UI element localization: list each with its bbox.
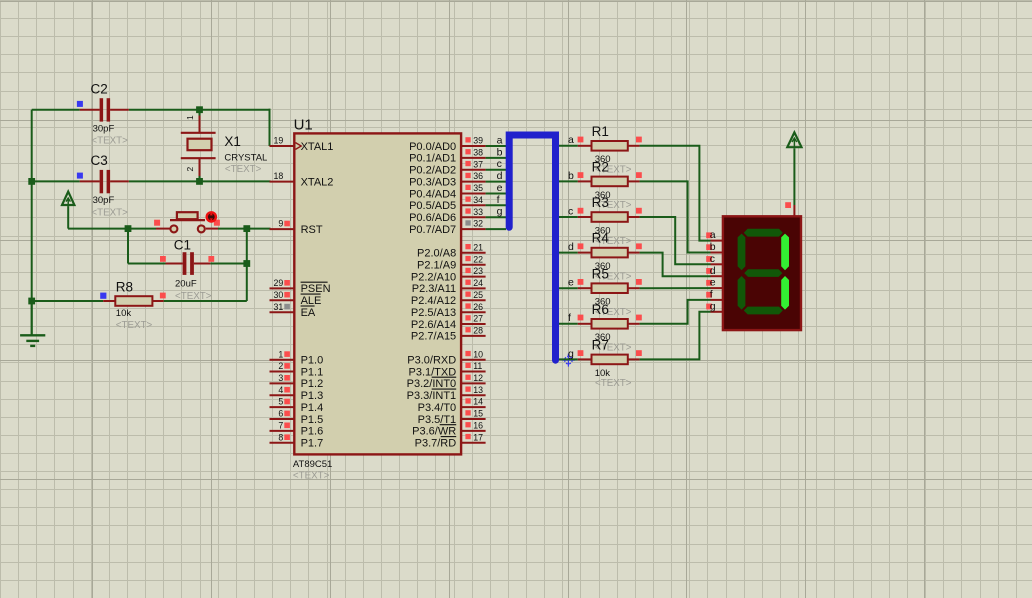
value 360 (R1)	[595, 154, 611, 165]
svg-text:2: 2	[278, 361, 283, 371]
svg-text:8: 8	[278, 432, 283, 442]
value 10k (R8)	[116, 308, 132, 319]
U1 right pin names	[407, 141, 457, 450]
text placeholder X1	[225, 164, 262, 175]
svg-text:c: c	[568, 205, 573, 217]
svg-text:P1.3: P1.3	[301, 390, 324, 402]
svg-text:P3.1/TXD: P3.1/TXD	[409, 366, 457, 378]
pin 9 RST	[270, 219, 295, 229]
U1 left pin names	[301, 141, 334, 450]
svg-text:AT89C51: AT89C51	[293, 459, 332, 470]
pin 2 P1.1	[270, 361, 295, 371]
svg-text:26: 26	[473, 302, 483, 312]
net label a (resistor left)	[568, 134, 574, 146]
pin 23 P2.2	[461, 266, 486, 276]
svg-text:29: 29	[274, 278, 284, 288]
display pin g	[706, 300, 723, 312]
net label c (resistor left)	[568, 205, 573, 217]
text placeholder R7	[595, 378, 632, 389]
svg-text:P2.0/A8: P2.0/A8	[417, 248, 456, 260]
svg-text:1: 1	[185, 115, 195, 120]
svg-text:f: f	[568, 312, 571, 324]
pin 17 P3.7	[461, 432, 486, 442]
wire net e to display	[640, 287, 711, 289]
svg-text:U1: U1	[294, 117, 313, 134]
svg-text:a: a	[568, 134, 574, 146]
svg-text:P2.4/A12: P2.4/A12	[411, 295, 456, 307]
pin 28 P2.7	[461, 326, 486, 336]
net label a (bus left)	[497, 134, 503, 146]
pin 19 XTAL1	[270, 136, 295, 146]
pin 34 P0.5	[461, 195, 506, 205]
svg-text:g: g	[710, 300, 716, 312]
value 30pF (C3)	[93, 195, 115, 206]
svg-text:10k: 10k	[595, 368, 611, 379]
display pin a	[706, 229, 723, 241]
svg-text:P3.3/INT1: P3.3/INT1	[407, 390, 457, 402]
pin 37 P0.2	[461, 159, 506, 169]
wire right drop (RST-C1-R8)	[246, 229, 248, 301]
svg-text:R2: R2	[592, 160, 609, 175]
label C1	[174, 238, 191, 253]
svg-text:34: 34	[473, 195, 483, 205]
svg-text:12: 12	[473, 373, 483, 383]
svg-text:e: e	[568, 277, 574, 289]
junction RST / C1 left drop	[125, 225, 132, 232]
svg-text:P0.3/AD3: P0.3/AD3	[409, 176, 456, 188]
svg-text:c: c	[710, 253, 715, 265]
pin 11 P3.1	[461, 361, 486, 371]
pin 35 P0.4	[461, 183, 506, 193]
svg-text:P2.1/A9: P2.1/A9	[417, 260, 456, 272]
pin 27 P2.6	[461, 314, 486, 324]
svg-text:d: d	[568, 241, 574, 253]
wire C2 row to XTAL1	[32, 109, 271, 146]
label R1	[592, 124, 609, 139]
svg-text:P0.5/AD5: P0.5/AD5	[409, 200, 456, 212]
svg-text:P1.0: P1.0	[301, 355, 324, 367]
pin 30 ALE	[270, 290, 295, 300]
svg-text:X1: X1	[224, 134, 241, 149]
label R6	[592, 302, 609, 317]
svg-text:24: 24	[473, 278, 483, 288]
power symbol (RST)	[62, 192, 74, 229]
svg-text:4: 4	[278, 385, 283, 395]
svg-text:10: 10	[473, 349, 483, 359]
pin 33 P0.6	[461, 207, 506, 217]
label X1	[224, 134, 241, 149]
svg-text:9: 9	[278, 219, 283, 229]
resistor R6	[559, 315, 642, 329]
text placeholder C3	[91, 207, 128, 218]
net label g (bus left)	[497, 206, 503, 218]
pin 38 P0.1	[461, 148, 506, 158]
svg-text:R1: R1	[592, 124, 609, 139]
display top pin	[785, 202, 794, 216]
svg-text:b: b	[710, 241, 716, 253]
pin 31 EA	[270, 302, 295, 312]
svg-text:10k: 10k	[116, 308, 132, 319]
svg-text:<TEXT>: <TEXT>	[116, 320, 153, 331]
svg-text:R4: R4	[592, 231, 610, 246]
bus P0	[509, 135, 555, 360]
net label b (bus left)	[497, 146, 503, 158]
svg-text:P0.4/AD4: P0.4/AD4	[409, 188, 456, 200]
text placeholder R5	[595, 307, 632, 318]
svg-text:b: b	[497, 146, 503, 158]
svg-text:1: 1	[278, 349, 283, 359]
wire C1 left drop	[127, 229, 129, 264]
pin 10 P3.0	[461, 349, 486, 359]
junction crystal pin2	[196, 178, 203, 185]
wire net a to display	[640, 146, 711, 241]
svg-text:g: g	[497, 206, 503, 218]
pin 3 P1.2	[270, 373, 295, 383]
wire net g to display	[640, 312, 711, 360]
pin 26 P2.5	[461, 302, 486, 312]
svg-text:32: 32	[473, 219, 483, 229]
svg-text:36: 36	[473, 171, 483, 181]
svg-text:7: 7	[278, 421, 283, 431]
wire C3 row to XTAL2	[32, 180, 271, 182]
label C2	[91, 81, 108, 96]
svg-text:a: a	[497, 134, 503, 146]
svg-text:P2.7/A15: P2.7/A15	[411, 331, 456, 343]
svg-text:P3.4/T0: P3.4/T0	[418, 402, 457, 414]
resistor R4	[559, 243, 642, 257]
pin 29 PSEN	[270, 278, 295, 288]
pin 36 P0.3	[461, 171, 506, 181]
capacitor C2	[77, 98, 129, 121]
display power arrow	[787, 132, 801, 205]
value 360 (R5)	[595, 297, 611, 308]
svg-text:<TEXT>: <TEXT>	[225, 164, 262, 175]
text placeholder R4	[595, 271, 632, 282]
svg-text:e: e	[710, 277, 716, 289]
svg-text:b: b	[568, 170, 574, 182]
svg-text:P0.7/AD7: P0.7/AD7	[409, 224, 456, 236]
text placeholder C1	[175, 291, 212, 302]
pin 22 P2.1	[461, 254, 486, 264]
net label c (bus left)	[497, 158, 502, 170]
svg-text:P3.0/RXD: P3.0/RXD	[407, 355, 456, 367]
svg-text:d: d	[497, 170, 503, 182]
capacitor C1	[128, 252, 247, 275]
net label f (bus left)	[497, 194, 500, 206]
svg-text:ALE: ALE	[301, 295, 322, 307]
svg-text:P1.1: P1.1	[301, 366, 324, 378]
display pin b	[706, 241, 723, 253]
junction left rail / C3	[28, 178, 35, 185]
svg-text:31: 31	[274, 302, 284, 312]
pin 12 P3.2	[461, 373, 486, 383]
svg-text:g: g	[568, 348, 574, 360]
pin 4 P1.3	[270, 385, 295, 395]
svg-text:P0.0/AD0: P0.0/AD0	[409, 141, 456, 153]
label R7	[592, 338, 609, 353]
net label f (resistor left)	[568, 312, 571, 324]
pin 14 P3.4	[461, 397, 486, 407]
svg-text:R5: R5	[592, 266, 609, 281]
display pin e	[706, 277, 723, 289]
svg-text:3: 3	[278, 373, 283, 383]
pin 18 XTAL2	[270, 171, 295, 181]
svg-text:21: 21	[473, 242, 483, 252]
svg-text:37: 37	[473, 159, 483, 169]
value 30pF (C2)	[93, 123, 115, 134]
svg-text:P1.4: P1.4	[301, 402, 324, 414]
value 360 (R6)	[595, 332, 611, 343]
pin 15 P3.5	[461, 409, 486, 419]
label R2	[592, 160, 609, 175]
pin 8 P1.7	[270, 432, 295, 442]
svg-text:39: 39	[473, 136, 483, 146]
net label d (bus left)	[497, 170, 503, 182]
display pin d	[706, 265, 723, 277]
value 20uF	[175, 279, 197, 290]
bus origin marker	[562, 354, 575, 367]
text placeholder R8	[116, 320, 153, 331]
pin 25 P2.4	[461, 290, 486, 300]
svg-text:P3.2/INT0: P3.2/INT0	[407, 378, 457, 390]
net label e (resistor left)	[568, 277, 574, 289]
svg-text:P2.3/A11: P2.3/A11	[412, 283, 456, 295]
svg-text:c: c	[497, 158, 502, 170]
pin 7 P1.6	[270, 421, 295, 431]
label R3	[592, 195, 609, 210]
svg-text:25: 25	[473, 290, 483, 300]
svg-text:28: 28	[473, 326, 483, 336]
junction crystal pin1	[196, 106, 203, 113]
svg-text:P2.6/A14: P2.6/A14	[411, 319, 456, 331]
label U1	[294, 117, 313, 134]
pin 32 P0.7	[461, 219, 506, 229]
svg-text:35: 35	[473, 183, 483, 193]
svg-text:30: 30	[274, 290, 284, 300]
display pin c	[706, 253, 723, 265]
svg-text:17: 17	[473, 432, 483, 442]
capacitor C3	[77, 170, 129, 193]
svg-text:PSEN: PSEN	[301, 283, 331, 295]
value CRYSTAL	[224, 152, 267, 163]
svg-text:33: 33	[473, 207, 483, 217]
svg-text:P0.2/AD2: P0.2/AD2	[409, 165, 456, 177]
junction RST / right drop	[243, 225, 250, 232]
pin 6 P1.5	[270, 409, 295, 419]
svg-text:P2.2/A10: P2.2/A10	[411, 271, 456, 283]
pin 5 P1.4	[270, 397, 295, 407]
wire net b to display	[640, 181, 711, 252]
svg-text:38: 38	[473, 148, 483, 158]
label R4	[592, 231, 610, 246]
display pin f	[706, 289, 723, 301]
svg-text:18: 18	[274, 171, 284, 181]
wire left rail	[31, 110, 33, 335]
svg-text:f: f	[710, 289, 713, 301]
svg-text:P3.5/T1: P3.5/T1	[418, 414, 457, 426]
wire net f to display	[640, 300, 711, 324]
pin 1 P1.0	[270, 349, 295, 359]
svg-text:P3.7/RD: P3.7/RD	[415, 438, 457, 450]
svg-text:30pF: 30pF	[93, 123, 115, 134]
value 360 (R2)	[595, 190, 611, 201]
resistor R2	[559, 172, 642, 186]
wire net d to display	[640, 253, 711, 277]
svg-text:5: 5	[278, 397, 283, 407]
wire RST row	[68, 228, 271, 230]
resistor R3	[559, 208, 642, 222]
svg-text:d: d	[710, 265, 716, 277]
svg-text:P3.6/WR: P3.6/WR	[412, 426, 456, 438]
svg-text:27: 27	[473, 314, 483, 324]
junction left rail / R8	[28, 298, 35, 305]
text placeholder R3	[595, 236, 632, 247]
svg-text:2: 2	[185, 166, 195, 171]
svg-text:15: 15	[473, 409, 483, 419]
svg-text:6: 6	[278, 409, 283, 419]
pin 16 P3.6	[461, 421, 486, 431]
svg-text:23: 23	[473, 266, 483, 276]
value 360 (R4)	[595, 261, 611, 272]
junction C1 right	[243, 260, 250, 267]
svg-text:EA: EA	[301, 307, 316, 319]
resistor R7	[559, 350, 642, 364]
value 360 (R3)	[595, 225, 611, 236]
svg-text:f: f	[497, 194, 500, 206]
svg-text:RST: RST	[301, 224, 323, 236]
svg-text:11: 11	[473, 361, 482, 371]
svg-text:P1.6: P1.6	[301, 426, 324, 438]
7-segment display	[723, 216, 801, 330]
pin 24 P2.3	[461, 278, 486, 288]
svg-text:14: 14	[473, 397, 483, 407]
ground	[20, 301, 45, 346]
resistor R1	[559, 137, 642, 151]
svg-text:R8: R8	[116, 280, 133, 295]
svg-text:30pF: 30pF	[93, 195, 115, 206]
svg-text:C2: C2	[91, 81, 108, 96]
svg-text:R7: R7	[592, 338, 609, 353]
text placeholder R2	[595, 200, 632, 211]
svg-text:C3: C3	[91, 153, 108, 168]
svg-text:P0.6/AD6: P0.6/AD6	[409, 212, 456, 224]
svg-text:<TEXT>: <TEXT>	[293, 470, 330, 481]
label R8	[116, 280, 133, 295]
wire net c to display	[640, 217, 711, 264]
crystal X1	[181, 110, 216, 182]
svg-text:P1.7: P1.7	[301, 438, 324, 450]
value AT89C51	[293, 459, 332, 470]
net label e (bus left)	[497, 182, 503, 194]
svg-text:CRYSTAL: CRYSTAL	[224, 152, 267, 163]
svg-text:XTAL2: XTAL2	[301, 176, 334, 188]
pin 39 P0.0	[461, 136, 506, 146]
svg-text:22: 22	[473, 254, 483, 264]
svg-text:P0.1/AD1: P0.1/AD1	[409, 153, 456, 165]
svg-text:<TEXT>: <TEXT>	[91, 207, 128, 218]
push button	[154, 212, 220, 232]
value 10k (R7)	[595, 368, 611, 379]
svg-text:P1.5: P1.5	[301, 414, 324, 426]
net label b (resistor left)	[568, 170, 574, 182]
svg-text:P2.5/A13: P2.5/A13	[411, 307, 456, 319]
svg-text:20uF: 20uF	[175, 279, 197, 290]
svg-text:13: 13	[473, 385, 483, 395]
svg-text:16: 16	[473, 421, 483, 431]
label R5	[592, 266, 609, 281]
text placeholder C2	[91, 136, 128, 147]
svg-text:<TEXT>: <TEXT>	[91, 136, 128, 147]
svg-text:R3: R3	[592, 195, 609, 210]
text placeholder R1	[595, 165, 632, 176]
text placeholder U1	[293, 470, 330, 481]
pin 21 P2.0	[461, 242, 486, 252]
resistor R8	[32, 293, 247, 306]
svg-text:a: a	[710, 229, 716, 241]
svg-text:P1.2: P1.2	[301, 378, 324, 390]
svg-text:<TEXT>: <TEXT>	[595, 378, 632, 389]
svg-text:e: e	[497, 182, 503, 194]
svg-text:R6: R6	[592, 302, 609, 317]
net label g (resistor left)	[568, 348, 574, 360]
text placeholder R6	[595, 343, 632, 354]
net label d (resistor left)	[568, 241, 574, 253]
resistor R5	[559, 279, 642, 293]
pin 13 P3.3	[461, 385, 486, 395]
MCU U1 body	[294, 133, 461, 454]
svg-text:19: 19	[274, 136, 284, 146]
svg-text:XTAL1: XTAL1	[301, 141, 334, 153]
svg-text:C1: C1	[174, 238, 191, 253]
label C3	[91, 153, 108, 168]
